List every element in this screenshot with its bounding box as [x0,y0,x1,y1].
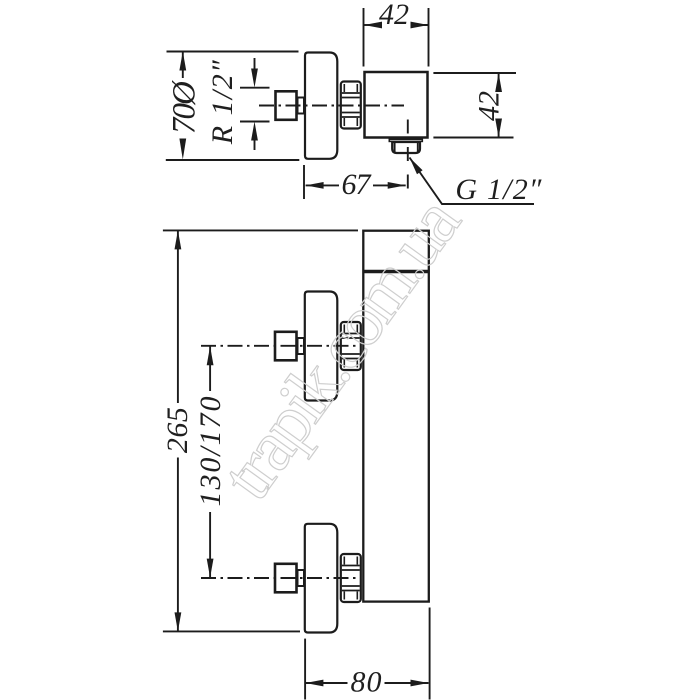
svg-text:67: 67 [342,168,373,201]
center line horizontal top view [259,105,404,107]
dimension line 42 top [364,24,378,26]
escutcheon top view [305,53,337,159]
svg-text:42: 42 [379,0,409,31]
connector lower [275,564,297,593]
dimension line 42 right [498,73,500,89]
R1/2 arrow line top [254,58,256,80]
outlet flange [389,139,422,141]
hex nut lower [341,554,361,602]
hex nut middle [341,322,361,370]
extension line 265 bottom [163,630,300,632]
dimension line 80 [305,682,347,684]
extension line bottom of escutcheon (70 dia) [166,159,299,161]
bar body front view [363,231,429,602]
extension line 42 top left [363,8,365,67]
dimension line 67 [306,184,339,186]
escutcheon middle [305,292,338,401]
dimension line 130/170 [209,346,211,391]
arrow down 70dia [179,139,186,160]
svg-text:42: 42 [473,91,506,121]
extension line 67 left [303,165,305,199]
extension line 80 right [429,608,431,700]
arrow up 70dia [179,52,186,71]
svg-text:G 1/2″: G 1/2″ [455,173,542,206]
neck middle [298,338,305,354]
dimension line 70dia upper segment [182,52,184,79]
connector middle [275,332,297,361]
dimension line 265 [177,230,179,403]
extension line 42 right lower [433,137,513,139]
hex nut top view [341,82,361,129]
neck lower [298,570,305,586]
extension line R1/2 top [240,87,270,89]
svg-text:trapik.com.ua: trapik.com.ua [206,183,475,513]
extension line top of escutcheon (70 dia) [167,51,299,53]
svg-text:80: 80 [351,666,382,699]
watermark trapik.com.ua [206,183,475,513]
body square top view [365,72,428,138]
leader G 1/2 [410,158,535,205]
neck top view [298,98,305,114]
extension line 80 left [304,639,306,700]
escutcheon lower [305,524,338,633]
svg-text:R 1/2″: R 1/2″ [206,60,239,146]
dashed axis of outlet [407,120,409,191]
extension line R1/2 bottom [240,121,270,123]
extension line 42 right upper [433,72,516,74]
R1/2 arrow line bottom [254,129,256,150]
center line middle unit [201,345,357,347]
extension line 265 top [163,229,358,231]
svg-text:265: 265 [161,407,194,453]
bar separator thick line [363,270,429,273]
extension line 42 top right [428,8,430,67]
center line lower unit [201,577,357,579]
outlet nut G1/2 [392,142,420,153]
connector square top view [276,91,297,120]
svg-text:70Ø: 70Ø [167,80,203,134]
